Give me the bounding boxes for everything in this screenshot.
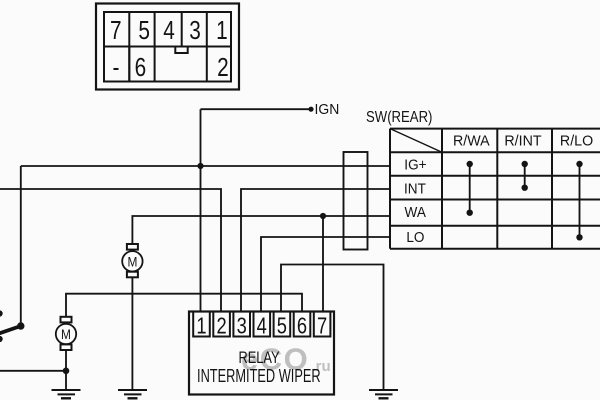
svg-text:2: 2	[217, 313, 227, 339]
connector J1 pin numbers	[110, 16, 229, 82]
wire pin7 riser	[322, 216, 324, 312]
svg-text:3: 3	[237, 313, 247, 339]
wire IG+ horizontal	[21, 165, 390, 167]
svg-text:R/LO: R/LO	[560, 133, 593, 149]
connector J1 keying notch	[175, 47, 187, 54]
switch SW1 arm	[0, 326, 21, 335]
table row labels	[404, 156, 427, 245]
wire motor M1 to ground	[65, 350, 67, 390]
wire motor M2 to ground	[131, 277, 133, 390]
svg-text:7: 7	[317, 313, 327, 339]
svg-text:-: -	[113, 53, 120, 82]
wire left edge to motor M1 bottom	[0, 370, 66, 372]
svg-text:7: 7	[110, 16, 122, 45]
svg-text:6: 6	[297, 313, 307, 339]
wire pin5 to ground	[281, 265, 384, 391]
svg-text:1: 1	[216, 16, 228, 45]
wire WA horizontal	[132, 216, 390, 244]
watermark	[241, 342, 331, 377]
wire pin6 to motor M1 top	[66, 294, 302, 317]
svg-text:RELAY: RELAY	[238, 348, 279, 367]
svg-text:INT: INT	[404, 180, 426, 197]
table contact R/INT: IG+ to INT	[522, 161, 528, 191]
node junction pin1/IG+	[197, 163, 203, 169]
relay K1 pin squares	[193, 312, 330, 337]
svg-text:IG+: IG+	[404, 156, 426, 173]
relay K1 label	[197, 348, 321, 387]
svg-text:5: 5	[138, 16, 150, 45]
svg-text:1: 1	[196, 313, 206, 339]
svg-text:M: M	[61, 326, 71, 342]
ground G3	[369, 390, 398, 398]
connector J1 inner grid	[104, 12, 231, 82]
switch SW1 contact upper	[0, 310, 3, 316]
switch SW1 pivot	[17, 322, 24, 329]
svg-text:LO: LO	[406, 229, 424, 246]
relay K1 box	[189, 312, 334, 395]
ground G1	[118, 390, 147, 398]
wire LO from table to pin4	[261, 237, 390, 312]
svg-text:6: 6	[135, 53, 147, 82]
wire INT right from table to pin3	[241, 189, 390, 312]
table column headers	[453, 133, 593, 149]
svg-text:SW(REAR): SW(REAR)	[366, 109, 432, 126]
svg-text:R/INT: R/INT	[504, 133, 541, 149]
svg-text:5: 5	[277, 313, 287, 339]
node junction WA/pin7	[320, 213, 326, 219]
motor M2 (upper, x=132)	[122, 244, 142, 277]
svg-text:4: 4	[257, 313, 267, 339]
motor M1 (lower, x=66)	[56, 317, 76, 350]
table header diagonal	[390, 129, 442, 153]
wire INT left to pin2	[0, 189, 221, 312]
wire IGN horizontal	[201, 108, 312, 110]
table contact R/WA: IG+ to WA	[467, 161, 473, 216]
svg-text:R/WA: R/WA	[453, 133, 490, 149]
ground G2	[52, 390, 81, 398]
svg-text:IGN: IGN	[315, 101, 340, 118]
svg-text:2: 2	[217, 53, 229, 82]
switch table grid	[390, 129, 600, 249]
switch SW1 contact lower	[0, 336, 3, 342]
svg-text:4: 4	[163, 16, 175, 45]
wire pin1 riser	[200, 109, 202, 312]
svg-text:M: M	[127, 253, 137, 269]
svg-text:3: 3	[189, 16, 201, 45]
relay K1 pin numbers	[196, 313, 327, 339]
node IGN dot	[308, 107, 313, 112]
svg-text:WA: WA	[405, 204, 427, 221]
svg-text:INTERMITED WIPER: INTERMITED WIPER	[197, 367, 321, 387]
node junction motor M1 bottom	[63, 368, 70, 375]
wire switch riser	[20, 166, 22, 326]
connector X1 (pass-through rectangle)	[344, 152, 368, 250]
connector J1 outer box	[96, 4, 239, 90]
table contact R/LO: IG+ to LO	[576, 161, 582, 241]
